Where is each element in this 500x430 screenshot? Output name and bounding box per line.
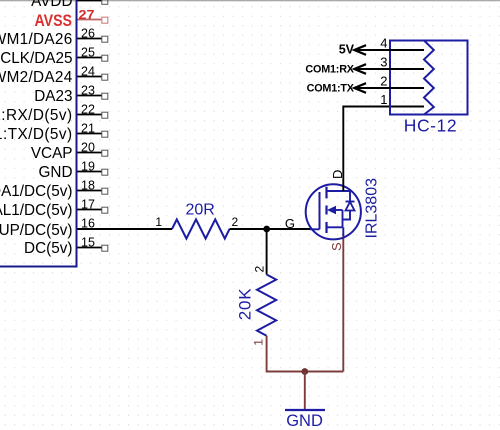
- source arrow head: [327, 206, 336, 214]
- body diode cathode lead: [349, 191, 351, 202]
- svg-text:15: 15: [81, 235, 95, 249]
- pin 20 VCAP: [31, 140, 108, 162]
- connector J1 HC-12: [355, 36, 467, 136]
- wire R2 bottom lead (maroon): [267, 336, 344, 372]
- connector body: [390, 41, 468, 115]
- wire pin16 to resistor R1: [78, 228, 173, 230]
- source vertical link: [342, 210, 344, 227]
- pin 23 DA23: [34, 83, 108, 105]
- svg-text:DA1/DC(5v): DA1/DC(5v): [0, 183, 73, 200]
- pin 22 RX/D(5v): [0, 102, 108, 124]
- svg-text:COM1:TX: COM1:TX: [307, 82, 355, 94]
- source connection line: [327, 226, 343, 228]
- pin 18 DA1/DC(5v): [0, 178, 108, 200]
- resistor R2 20K: [235, 266, 276, 346]
- svg-text:26: 26: [81, 26, 95, 40]
- top frame edge: [0, 0, 500, 1]
- pin 17 L1/DC(5v): [0, 197, 108, 219]
- mosfet circle: [306, 184, 361, 239]
- svg-text:COM1:RX: COM1:RX: [305, 63, 354, 75]
- net arrow 5V: [339, 43, 366, 57]
- svg-text:17: 17: [81, 197, 95, 211]
- wire up to MOSFET source: [342, 234, 344, 372]
- connector contacts zigzag: [424, 41, 434, 115]
- svg-text:HC-12: HC-12: [404, 116, 457, 136]
- pin 19 GND: [39, 159, 108, 181]
- svg-text:IRL3803: IRL3803: [364, 178, 381, 239]
- body diode triangle: [346, 202, 355, 211]
- svg-text:1: 1: [155, 215, 162, 229]
- svg-text:19: 19: [81, 159, 95, 173]
- body diode anode lead: [343, 211, 351, 220]
- pin 15 DC(5v): [24, 235, 108, 257]
- svg-text:AVSS: AVSS: [35, 12, 73, 30]
- source pin stub: [342, 227, 344, 236]
- svg-text:20R: 20R: [186, 202, 215, 219]
- svg-text:22: 22: [81, 102, 95, 116]
- net arrow COM1:TX: [307, 82, 366, 94]
- svg-text:18: 18: [81, 178, 95, 192]
- pin 26 PWM1/DA26: [0, 26, 108, 48]
- svg-text:CLK/DA25: CLK/DA25: [0, 50, 72, 67]
- pin 3 line: [355, 68, 424, 70]
- wire R1 to gate node: [230, 228, 312, 230]
- svg-text:DC(5v): DC(5v): [24, 240, 72, 257]
- channel bar top segment: [325, 187, 327, 199]
- svg-text:21: 21: [81, 121, 95, 135]
- svg-text:25: 25: [81, 45, 95, 59]
- channel bar bottom segment: [325, 222, 327, 233]
- svg-text:2: 2: [380, 74, 387, 89]
- channel bar middle segment: [325, 206, 327, 215]
- svg-text:2: 2: [232, 215, 239, 229]
- svg-text:AVDD: AVDD: [31, 0, 72, 10]
- transistor Q1 IRL3803: [285, 170, 381, 251]
- pin 21 TX/D(5v): [0, 121, 108, 143]
- wire junction down to R2: [266, 229, 268, 275]
- junction node ground net: [301, 368, 308, 375]
- pin 24 PWM2/DA24: [0, 64, 108, 86]
- svg-text:4: 4: [380, 36, 387, 51]
- body diode cathode bar: [346, 201, 355, 203]
- pin 28 AVDD: [31, 0, 108, 10]
- svg-text:1: 1: [380, 92, 387, 107]
- svg-text:GND: GND: [286, 412, 323, 430]
- svg-text:24: 24: [81, 64, 95, 78]
- svg-text:VCAP: VCAP: [31, 145, 73, 162]
- gate lead: [310, 228, 320, 230]
- svg-text:3: 3: [380, 55, 387, 70]
- ground symbol GND: [285, 410, 325, 430]
- gate bar: [319, 192, 321, 229]
- pin 27 AVSS (highlighted red): [35, 7, 108, 30]
- svg-text:1:TX/D(5v): 1:TX/D(5v): [0, 126, 73, 143]
- pin 16 UP/DC(5v): [0, 216, 95, 239]
- svg-text:1:RX/D(5v): 1:RX/D(5v): [0, 107, 73, 124]
- svg-text:27: 27: [79, 7, 95, 22]
- svg-text:23: 23: [81, 83, 95, 97]
- svg-text:2: 2: [253, 266, 267, 273]
- IC U1 body border: [0, 0, 77, 267]
- svg-text:GND: GND: [39, 164, 73, 181]
- net arrow COM1:RX: [305, 63, 366, 75]
- svg-text:5V: 5V: [339, 43, 355, 57]
- svg-text:PWM1/DA26: PWM1/DA26: [0, 31, 73, 48]
- svg-text:UP/DC(5v): UP/DC(5v): [0, 222, 73, 239]
- svg-text:AL1/DC(5v): AL1/DC(5v): [0, 202, 73, 219]
- svg-text:DA23: DA23: [34, 88, 72, 105]
- source arrow line: [334, 209, 343, 211]
- wire HC-12 pin1 to MOSFET drain: [343, 107, 424, 192]
- svg-text:20: 20: [81, 140, 95, 154]
- junction node gate: [263, 226, 270, 233]
- drain connection line: [327, 190, 351, 192]
- svg-text:1: 1: [252, 339, 266, 346]
- svg-text:PWM2/DA24: PWM2/DA24: [0, 69, 73, 86]
- pin 4 line: [355, 49, 424, 51]
- pin 2 line: [355, 87, 424, 89]
- svg-text:S: S: [329, 242, 344, 251]
- wire junction to GND: [304, 372, 306, 410]
- resistor R1 20R: [155, 202, 238, 239]
- svg-text:20K: 20K: [235, 288, 254, 321]
- svg-text:G: G: [285, 216, 295, 231]
- pin 25 CLK/DA25: [0, 45, 108, 67]
